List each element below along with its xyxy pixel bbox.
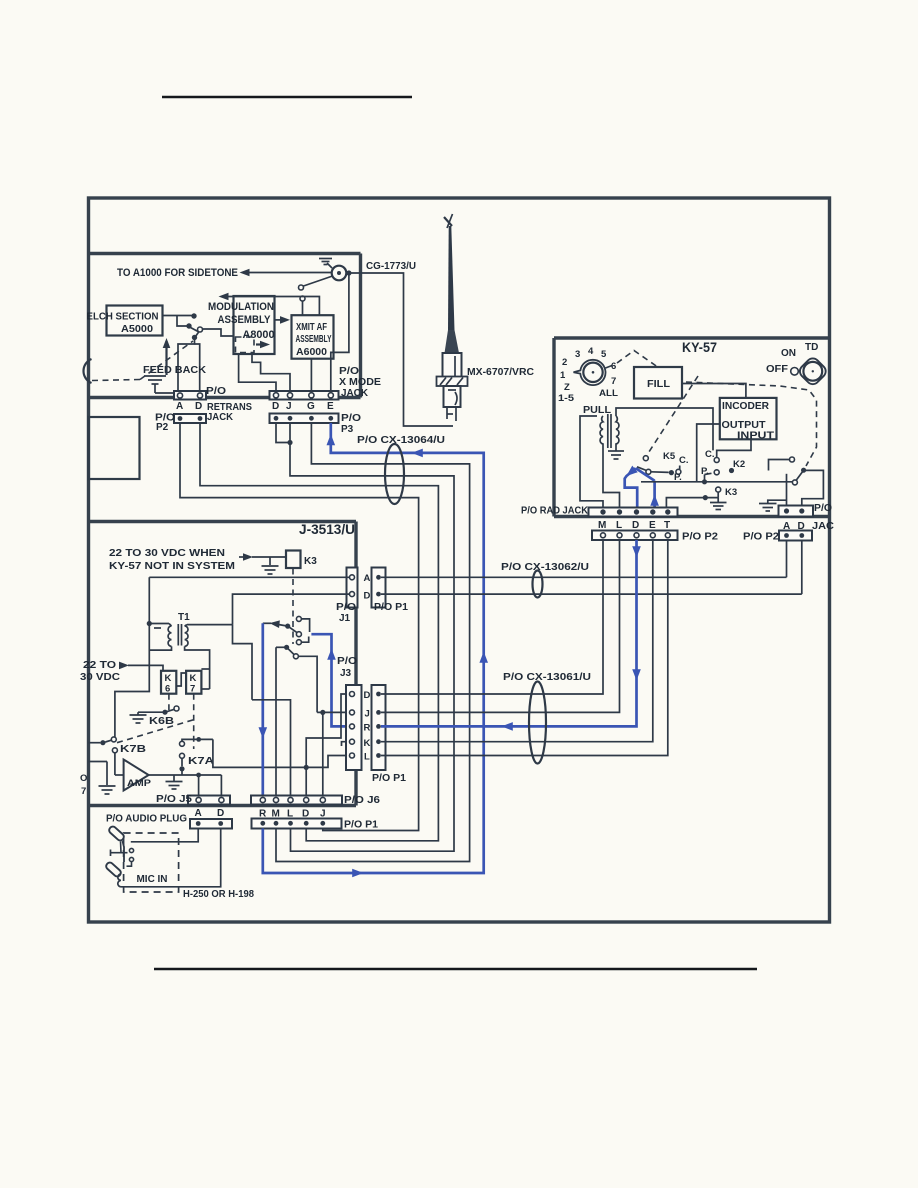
transformer KY-57 [600, 414, 619, 448]
svg-text:AMP: AMP [127, 778, 152, 789]
dashed feedback lines [92, 341, 193, 381]
connector bar P/O P3 [270, 414, 339, 424]
connector bar P/O J3 [346, 685, 362, 770]
transformer T1 [149, 624, 188, 647]
svg-text:1: 1 [560, 370, 566, 381]
svg-text:J3: J3 [340, 668, 352, 679]
relay coil K3 (J-3513) [286, 551, 301, 569]
wire right P2-D down [801, 541, 803, 595]
ground J7 [99, 786, 116, 794]
ground K3 [710, 498, 727, 510]
svg-text:P/O J6: P/O J6 [344, 795, 380, 806]
svg-text:J-3513/U: J-3513/U [299, 522, 355, 537]
wire P3-D/J loop to P1-L [276, 423, 454, 851]
ground on K3 wire [262, 557, 279, 574]
svg-text:K: K [364, 738, 371, 749]
svg-text:XMIT AF: XMIT AF [296, 322, 327, 333]
wire J6-J riser with J3-J row [317, 710, 349, 796]
dashed pointer rotary to FILL [617, 351, 657, 367]
rotary selector knob [574, 360, 613, 385]
connector bar audio P (J5 mate) [190, 819, 232, 829]
arrow and wire to K3 coil [239, 553, 286, 561]
connector bar P/O P2 (radio) [174, 414, 206, 423]
connector bar P/O P2 (KY-57) [592, 531, 678, 541]
svg-text:7: 7 [190, 684, 195, 695]
feedback arrow up to A5000 [163, 338, 171, 375]
clipped sub-box at left border [89, 417, 140, 479]
pin labels R M L D J (J6) [259, 809, 326, 820]
svg-text:A: A [176, 401, 183, 412]
wire J1-D row into box [233, 594, 350, 625]
outer diagram border [89, 198, 830, 922]
svg-text:P/O P1: P/O P1 [344, 820, 378, 831]
wire KY E column [381, 540, 653, 742]
svg-text:1-5: 1-5 [558, 393, 575, 404]
svg-text:J: J [286, 401, 292, 412]
wire J6-M riser [275, 647, 277, 796]
switch below coax [299, 276, 333, 315]
connector bar P/O J6 [251, 796, 342, 805]
svg-text:L: L [616, 520, 622, 531]
svg-text:C.: C. [679, 455, 689, 466]
wire audio A to mic [131, 829, 198, 842]
box INCODER [720, 398, 777, 439]
svg-text:P/O CX-13064/U: P/O CX-13064/U [357, 435, 445, 446]
svg-text:5: 5 [601, 349, 607, 360]
svg-text:K5: K5 [663, 451, 676, 462]
svg-text:O: O [80, 773, 87, 784]
svg-text:22 TO 30 VDC WHEN: 22 TO 30 VDC WHEN [109, 548, 225, 559]
wire KY T column [381, 540, 668, 756]
svg-text:D: D [632, 520, 639, 531]
arrow sub-module output [256, 341, 270, 349]
contact K3 KY-57 [716, 487, 721, 498]
box A8000 modulation assembly [234, 296, 275, 354]
node coax/E junction [346, 270, 351, 275]
pin labels D J R K L [364, 690, 371, 763]
cable oval P/O CX-13064/U [385, 444, 404, 504]
svg-text:P/O P2: P/O P2 [682, 532, 718, 543]
wire right P2-A down [786, 541, 788, 578]
svg-text:P/O P1: P/O P1 [374, 602, 408, 613]
wire T1 right bottom to K7 chain [185, 646, 210, 689]
wire J1-A row into box [149, 576, 349, 578]
wire jack pin A to K2 and ground [768, 474, 787, 508]
svg-text:MIC IN: MIC IN [137, 874, 168, 885]
wire CX-13062 A row [381, 576, 787, 578]
svg-text:D: D [364, 690, 371, 701]
wire transformer left branch to pin M [580, 416, 603, 508]
wire XMIT top to modulation arrow [219, 293, 320, 316]
wire cluster to modulation box [203, 329, 234, 336]
wire P2-A loop to P1-J [180, 423, 419, 831]
wire AMP output to J5 [149, 773, 222, 796]
svg-text:P/O RAD JACK: P/O RAD JACK [521, 506, 589, 517]
svg-text:TD: TD [805, 342, 818, 353]
svg-text:P.: P. [701, 466, 709, 477]
cable oval P/O CX-13062/U [533, 571, 543, 598]
connector bar P/O P1 (J3) [372, 685, 386, 770]
connector bar P/O RAD JACK [589, 508, 678, 517]
wire transformer top to K2 region [616, 408, 713, 450]
connector bar P/O P2 (right) [779, 531, 812, 541]
ground at coax connector [319, 259, 332, 269]
wire FILL to INCODER [682, 384, 746, 398]
svg-text:A8000: A8000 [243, 329, 275, 341]
svg-text:P/O: P/O [339, 366, 359, 377]
switch upper (retrans relay) [263, 616, 310, 644]
dashed K6 linkage [168, 694, 170, 710]
svg-text:JAC: JAC [812, 521, 834, 532]
clipped arc at left border [83, 359, 91, 383]
svg-text:K2: K2 [733, 459, 745, 470]
dashed mechanical linkage K7B-K7A [117, 720, 193, 743]
dashed diagonal to K5 [647, 376, 698, 455]
connector bar P/O X MODE JACK [270, 391, 339, 400]
svg-text:D: D [364, 591, 371, 602]
svg-text:E: E [649, 520, 656, 531]
svg-text:T: T [664, 520, 670, 531]
blue wire switch to J6-R [259, 623, 268, 796]
contact K6B with ground [130, 706, 180, 723]
wire audio D to mic [124, 829, 221, 887]
svg-text:G: G [307, 401, 315, 412]
svg-text:FILL: FILL [647, 379, 670, 390]
relay coil K6 [161, 671, 176, 694]
svg-text:7: 7 [611, 376, 616, 387]
svg-text:L: L [364, 752, 370, 763]
svg-text:X MODE: X MODE [339, 377, 381, 388]
ground transformer [608, 446, 624, 459]
bottom rule line [154, 968, 757, 970]
svg-text:A: A [364, 573, 371, 584]
wire J3-D row to J6-D riser [306, 694, 349, 796]
svg-text:J: J [365, 709, 370, 720]
svg-text:K: K [165, 673, 172, 684]
wire K2 wiper to jack pin D [802, 470, 824, 507]
relay coil K7 [186, 671, 201, 694]
wire T1 branch down right [233, 625, 253, 700]
svg-text:C.: C. [705, 449, 715, 460]
svg-text:ON: ON [781, 348, 796, 359]
ground radio lower-left [144, 376, 174, 393]
wire xmode E riser to coax [331, 273, 349, 391]
relay contacts K5 [637, 456, 681, 476]
wire J3-K row stub [342, 742, 350, 746]
svg-text:P3: P3 [341, 424, 354, 435]
svg-text:P/O CX-13062/U: P/O CX-13062/U [501, 562, 589, 573]
wire K6 to K7 link [176, 673, 186, 686]
antenna MX-6707/VRC [437, 214, 468, 421]
arrow 22-30 VDC [119, 662, 129, 670]
svg-text:INPUT: INPUT [737, 431, 774, 442]
handset H-250 [105, 825, 134, 887]
svg-text:TO A1000 FOR SIDETONE: TO A1000 FOR SIDETONE [117, 267, 238, 279]
contact K7B [89, 737, 124, 775]
connector bar P/O P1 (J6 mate) [252, 819, 342, 829]
svg-text:MX-6707/VRC: MX-6707/VRC [467, 367, 534, 378]
svg-text:P/O: P/O [337, 656, 357, 667]
svg-text:P/O CX-13061/U: P/O CX-13061/U [503, 672, 591, 683]
pin labels M L D E T [598, 520, 670, 531]
svg-text:P/O P2: P/O P2 [743, 532, 779, 543]
svg-text:K3: K3 [304, 556, 317, 567]
wire xmode J riser [252, 353, 290, 392]
svg-text:ASSEMBLY: ASSEMBLY [296, 334, 332, 345]
svg-text:KY-57 NOT IN SYSTEM: KY-57 NOT IN SYSTEM [109, 561, 235, 572]
svg-text:P/O: P/O [336, 602, 356, 613]
wire P2-D loop to P1-D [200, 423, 438, 841]
dashed line FILL to toggle to K2 [686, 382, 817, 466]
wire bus left vertical [115, 577, 152, 737]
svg-text:P/O P1: P/O P1 [372, 773, 406, 784]
blue wire KY D column to P1-R row [381, 540, 641, 731]
svg-text:P/O: P/O [341, 413, 361, 424]
wire sidetone with arrow [240, 269, 333, 277]
svg-text:KY-57: KY-57 [682, 340, 717, 355]
blue wire contact loop to J3-R [311, 634, 349, 726]
amplifier AMP [124, 760, 152, 791]
toggle ON/TD knob [791, 356, 829, 387]
ground right jack [759, 504, 777, 512]
svg-text:P/O AUDIO PLUG: P/O AUDIO PLUG [106, 814, 187, 825]
wire coax to antenna [347, 273, 454, 426]
wire INPUT down to C contact [717, 439, 751, 457]
ground near J5 [166, 775, 183, 789]
wire KY M column [381, 540, 603, 694]
svg-text:MODULATION: MODULATION [208, 301, 274, 313]
svg-text:K3: K3 [725, 487, 737, 498]
wire T1 left bottom to bus [149, 646, 171, 650]
svg-text:JACK: JACK [341, 388, 369, 399]
wire A5000 to contact [163, 313, 197, 318]
svg-text:A: A [195, 808, 202, 819]
svg-text:JACK: JACK [207, 412, 234, 423]
svg-text:6: 6 [611, 361, 616, 372]
wire T1 right top across [187, 624, 233, 626]
svg-text:22 TO: 22 TO [83, 660, 116, 671]
connector bar P/O RETRANS JACK [174, 391, 206, 400]
top rule line [162, 96, 412, 99]
svg-text:J1: J1 [339, 613, 351, 624]
svg-text:6: 6 [165, 684, 170, 695]
box A6000 XMIT AF assembly [292, 315, 334, 359]
wire K5 C stub [679, 466, 681, 470]
connector bar P/O J5 [188, 796, 230, 805]
wire KY L column [381, 540, 620, 712]
wire xmode D riser [239, 354, 276, 391]
rotary position labels [558, 346, 618, 404]
svg-text:K: K [190, 673, 197, 684]
svg-text:3: 3 [575, 349, 580, 360]
svg-text:PULL: PULL [583, 405, 611, 416]
svg-text:A6000: A6000 [296, 347, 327, 358]
svg-text:ASSEMBLY: ASSEMBLY [218, 314, 272, 326]
KY-57 enclosure [554, 338, 829, 517]
svg-text:D: D [272, 401, 279, 412]
svg-text:OFF: OFF [766, 364, 788, 375]
connector bar P/O P1 (J1) [372, 568, 386, 608]
svg-text:P/O J5: P/O J5 [156, 794, 192, 805]
svg-text:2: 2 [562, 357, 567, 368]
wire J6-L riser [252, 700, 291, 796]
wire cluster to retrans pins A D [178, 340, 200, 391]
coax connector CG-1773/U [332, 266, 347, 281]
svg-text:K6B: K6B [149, 716, 174, 727]
svg-text:M: M [598, 520, 606, 531]
svg-text:ELCH SECTION: ELCH SECTION [87, 312, 159, 323]
cable oval P/O CX-13061/U [529, 682, 546, 764]
wire A5000 branch contact [177, 316, 192, 329]
dashed box MIC IN [124, 833, 179, 892]
wire to pin L [603, 446, 620, 508]
svg-text:CG-1773/U: CG-1773/U [366, 261, 416, 272]
box A5000 squelch section [107, 306, 163, 336]
svg-text:P/O: P/O [206, 386, 226, 397]
svg-text:D: D [195, 401, 202, 412]
wire pin T to K3 ground [666, 495, 718, 508]
dashed K7 linkage [193, 694, 195, 749]
svg-text:4: 4 [588, 346, 594, 357]
svg-text:7: 7 [81, 786, 86, 797]
svg-text:P/O: P/O [814, 503, 832, 514]
svg-text:A5000: A5000 [121, 324, 153, 335]
switch wiper cluster [191, 327, 203, 340]
blue wire P1-R loop to P3-E [263, 423, 488, 877]
wire K7A to J3-L row [213, 739, 349, 767]
arrow A8000 to XMIT [275, 316, 291, 324]
wire P3-G loop to P1-M [276, 423, 470, 862]
svg-text:E: E [327, 401, 334, 412]
connector bar P/O JACK (right) [779, 506, 814, 517]
clipped connector P/O J7 at border [80, 762, 107, 798]
wire VDC to K6 [128, 665, 163, 670]
radio enclosure (top-left, clipped by border) [89, 254, 361, 398]
J-3513/U enclosure [89, 522, 357, 806]
connector bar P/O J1 [347, 568, 358, 608]
svg-text:OUTPUT: OUTPUT [722, 420, 766, 431]
dashed sub-module of A8000 [236, 337, 255, 353]
svg-text:K7B: K7B [120, 744, 146, 755]
box FILL [634, 367, 682, 399]
svg-text:INCODER: INCODER [722, 401, 770, 412]
blue path pin E up through contact down pin D [624, 466, 659, 508]
wire CX-13062 D row [381, 593, 802, 595]
svg-text:R: R [364, 723, 371, 734]
contact K7A [179, 737, 213, 775]
wire K7 right links [201, 669, 209, 689]
switch lower [276, 645, 317, 713]
wire OUTPUT to P contact [697, 424, 720, 482]
svg-text:Z: Z [564, 382, 570, 393]
svg-text:K7A: K7A [188, 756, 214, 767]
svg-text:H-250 OR H-198: H-250 OR H-198 [183, 889, 254, 900]
svg-text:P2: P2 [156, 422, 169, 433]
svg-text:30 VDC: 30 VDC [80, 672, 120, 683]
svg-text:D: D [217, 808, 224, 819]
svg-text:ALL: ALL [599, 388, 618, 399]
wire xmode G riser [310, 359, 312, 391]
svg-text:T1: T1 [178, 612, 190, 623]
dashed K3 linkage down to switch [292, 569, 294, 645]
node on J6-D riser [304, 765, 309, 770]
relay contacts K2 [641, 457, 806, 485]
